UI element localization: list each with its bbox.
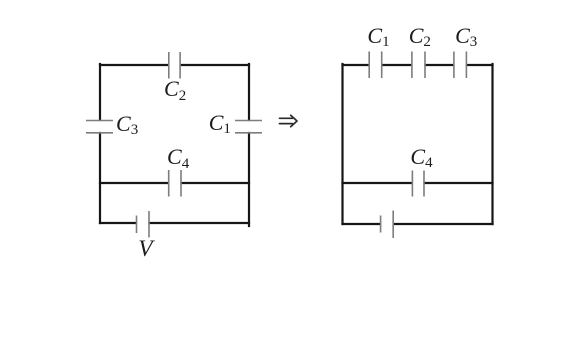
wire left-circuit bottom rail (left segment) (100, 222, 136, 224)
label C3 (right circuit) (455, 25, 477, 47)
label C2 (right circuit) (409, 25, 431, 47)
wire right-circuit middle rail (left segment) (343, 182, 412, 184)
wire left-circuit left rail (upper segment) (99, 64, 101, 120)
label C2 (left circuit) (164, 78, 186, 100)
wire right-circuit left rail (341, 64, 343, 224)
label C4 (left circuit) (167, 146, 189, 168)
wire left-circuit top rail (right segment) (181, 64, 249, 66)
battery plates (right circuit, bottom rail: short + long) (381, 211, 394, 239)
label C3 (left circuit) (116, 113, 138, 135)
capacitor C4 plates (right circuit, middle rail) (412, 171, 424, 197)
wire left-circuit bottom rail (right segment) (150, 222, 250, 224)
capacitor C3 plates (left circuit, left rail) (86, 121, 113, 133)
implication arrow ⇒ (280, 115, 298, 126)
wire right-circuit middle rail (right segment) (425, 182, 493, 184)
wire left-circuit middle rail (left segment) (100, 182, 168, 184)
capacitor C1 plates (right circuit, top rail) (369, 52, 382, 79)
capacitor C2 plates (right circuit, top rail) (412, 52, 425, 79)
capacitor C4 plates (left circuit, middle rail) (169, 170, 181, 197)
wire right-circuit bottom rail (left segment) (343, 223, 381, 225)
wire left-circuit right rail (upper segment) (248, 64, 250, 120)
wire left-circuit middle rail (right segment) (182, 182, 250, 184)
capacitor C1 plates (left circuit, right rail) (235, 121, 262, 133)
capacitor C2 plates (left circuit, top rail) (169, 52, 180, 79)
wire left-circuit top rail (left segment) (100, 64, 168, 66)
label C1 (left circuit) (209, 112, 231, 134)
wire left-circuit left rail (lower segment) (99, 133, 101, 223)
label C1 (right circuit) (367, 25, 389, 47)
wire right-circuit bottom rail (right segment) (394, 223, 493, 225)
capacitor C3 plates (right circuit, top rail) (454, 52, 467, 79)
battery V plates (left circuit, bottom rail: short + long) (137, 211, 150, 238)
wire left-circuit right rail (lower segment) (248, 133, 250, 226)
label C4 (right circuit) (410, 146, 432, 168)
label V (left circuit source) (138, 238, 152, 262)
wire right-circuit top rail segments (343, 64, 369, 66)
wire right-circuit right rail (491, 64, 493, 224)
